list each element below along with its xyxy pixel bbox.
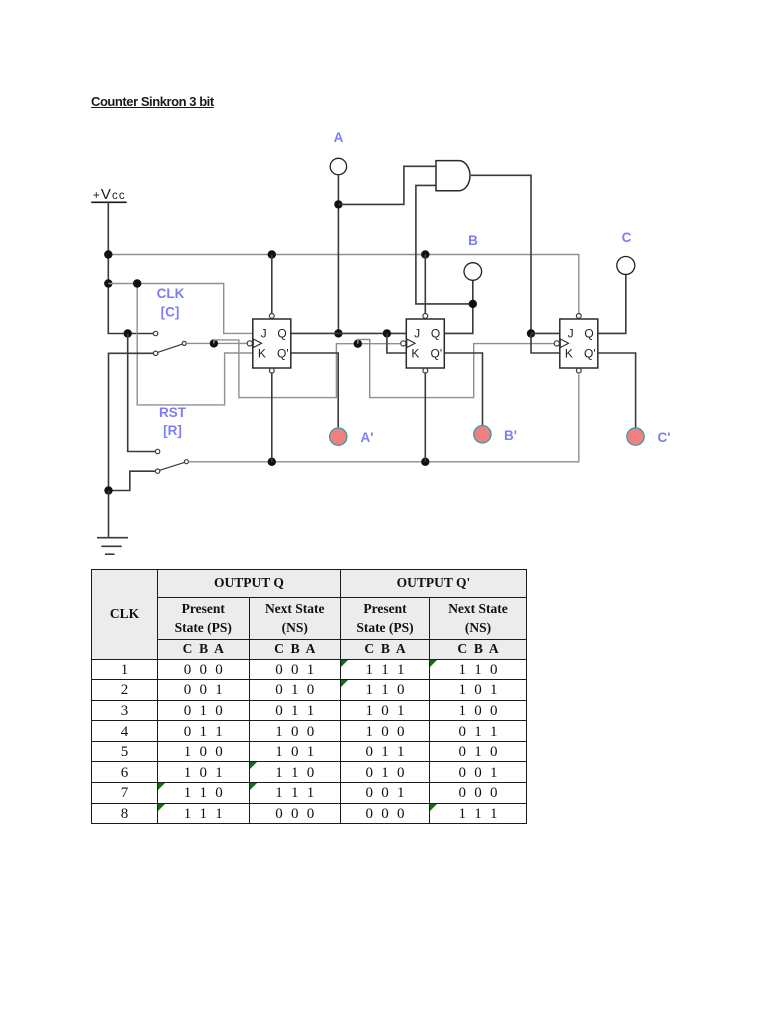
wire CLK staircase to FF2 clock <box>214 340 401 398</box>
svg-text:C: C <box>622 230 632 245</box>
wire Q'1 to probe A' <box>291 353 339 427</box>
wire K2 tie <box>387 333 406 353</box>
wire AND output to J3 K3 <box>471 175 531 333</box>
wire Vcc vertical to CLK switch <box>108 202 153 333</box>
flip-flop U1 <box>247 314 291 374</box>
flip-flop U2 <box>401 314 445 374</box>
wire J1 to Vcc <box>108 284 253 334</box>
and gate U4 <box>436 161 470 191</box>
wire K3 <box>531 334 560 354</box>
svg-text:K: K <box>258 347 266 361</box>
wire Vcc rail to FF3 top pin <box>108 255 579 314</box>
svg-text:B': B' <box>504 428 517 443</box>
junction AND J3 <box>527 329 535 337</box>
wire AND input 1 <box>338 166 436 204</box>
probe C' <box>627 428 644 445</box>
wire RST upper terminal to Vcc <box>128 334 156 452</box>
svg-text:Q: Q <box>431 327 440 341</box>
svg-text:Q: Q <box>584 327 593 341</box>
wire AND input 2 <box>416 185 473 304</box>
switch S1 CLK <box>153 331 186 355</box>
svg-text:Q: Q <box>277 327 286 341</box>
wire Q'2 to probe B' <box>444 353 482 426</box>
wire FF2 top pin <box>424 255 426 314</box>
junction A AND branch <box>334 200 342 208</box>
wire CLK staircase to FF3 clock <box>358 340 554 398</box>
svg-text:K: K <box>411 347 419 361</box>
svg-text:RST: RST <box>159 405 187 420</box>
svg-text:K: K <box>565 347 573 361</box>
junction B AND branch <box>469 300 477 308</box>
wire Q1 to J2 <box>291 332 407 334</box>
switch S2 RST <box>155 449 188 473</box>
svg-text:[R]: [R] <box>163 423 182 438</box>
wire FF2 bottom pin <box>424 373 426 462</box>
wire Q3 to lamp C <box>598 274 626 333</box>
wire RST net to FF bottom pins <box>188 374 578 462</box>
wire to ground symbol <box>108 491 110 538</box>
wire K1 to Vcc <box>137 284 253 405</box>
lamp A <box>330 158 346 174</box>
junction RST Vcc branch <box>124 329 132 337</box>
wire lamp A to Q1 <box>337 175 339 334</box>
lamp C <box>617 257 635 275</box>
wire CLK net to FF1 clock <box>186 342 247 344</box>
svg-text:J: J <box>414 327 420 341</box>
wire Q2 to lamp B <box>444 280 472 333</box>
lamp B <box>464 263 482 281</box>
wire RST lower terminal to ground <box>110 471 155 490</box>
svg-text:J: J <box>568 327 574 341</box>
svg-text:CLK: CLK <box>157 286 185 301</box>
junction K1 branch <box>133 279 141 287</box>
svg-text:[C]: [C] <box>161 305 180 320</box>
wire Q'3 to probe C' <box>598 353 636 428</box>
junction Vcc vertical J1 branch <box>104 279 112 287</box>
junction Q1 K2 branch <box>383 329 391 337</box>
flip-flop U3 <box>554 314 598 374</box>
junction rail FF1 <box>268 250 276 258</box>
svg-text:Q': Q' <box>584 347 596 361</box>
wire CLK lower terminal to ground <box>109 353 154 490</box>
junction Vcc rail left <box>104 250 112 258</box>
junction CLK branch 2 <box>354 340 362 348</box>
svg-text:+Vcc: +Vcc <box>93 186 126 203</box>
ground <box>97 538 128 555</box>
probe A' <box>330 428 347 445</box>
svg-text:J: J <box>261 327 267 341</box>
junction CLK branch 1 <box>210 339 218 347</box>
svg-text:A: A <box>334 130 344 145</box>
svg-text:B: B <box>468 233 478 248</box>
junction A on Q1 <box>334 329 342 337</box>
svg-text:A': A' <box>361 430 374 445</box>
wire FF1 top pin <box>271 255 273 314</box>
junction rail FF2 <box>421 250 429 258</box>
svg-text:C': C' <box>658 430 671 445</box>
wire FF1 bottom pin <box>271 373 273 462</box>
wire J3 <box>531 332 560 334</box>
svg-text:Q': Q' <box>431 347 443 361</box>
svg-text:Q': Q' <box>277 347 289 361</box>
junction RST FF1 <box>268 458 276 466</box>
junction ground <box>104 486 112 494</box>
junction RST FF2 <box>421 458 429 466</box>
power +Vcc <box>91 186 127 203</box>
probe B' <box>474 426 491 443</box>
